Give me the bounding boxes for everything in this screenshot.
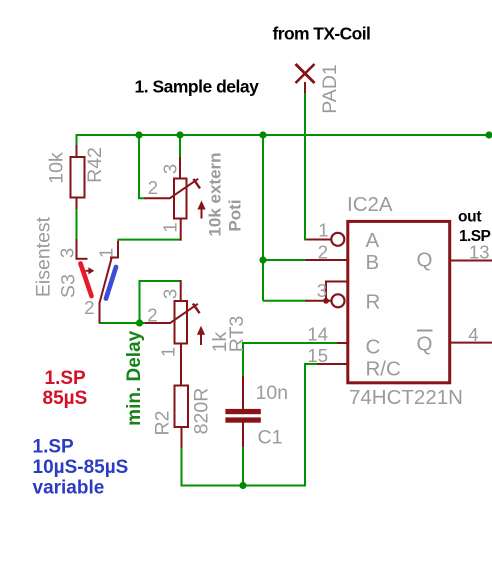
wire: rail to pot pin 3 [179,134,181,158]
wire: bottom net R2 / C1 / IC pin 15 [182,364,319,486]
svg-text:R: R [366,291,381,314]
svg-text:10n: 10n [256,382,289,404]
svg-text:R42: R42 [84,147,106,183]
wire: C1 bottom lead green part [242,445,244,486]
svg-text:C1: C1 [258,427,283,449]
wire: main top rail [77,134,491,136]
svg-text:4: 4 [468,324,478,345]
svg-text:from TX-Coil: from TX-Coil [273,24,371,44]
svg-text:Eisentest: Eisentest [33,216,55,297]
IC pin 4 lead [449,342,492,344]
svg-text:1. Sample delay: 1. Sample delay [135,77,260,97]
svg-text:2: 2 [147,305,157,326]
IC pin 1 lead and bubble [307,233,345,246]
svg-text:74HCT221N: 74HCT221N [349,386,463,409]
switch blue mark [106,267,116,299]
IC pin 13 lead [449,260,492,262]
svg-text:10k extern: 10k extern [206,152,225,236]
svg-text:RT3: RT3 [226,316,248,353]
svg-text:out: out [458,209,481,226]
junction node rail right end [485,131,492,138]
op-amp IC2A (monostable 74HCT221) [348,221,450,382]
wire: to IC pin 3 [263,300,307,302]
svg-text:A: A [366,229,380,252]
svg-text:min. Delay: min. Delay [124,330,145,425]
junction node on rail x263 [259,131,266,138]
svg-text:Q: Q [417,249,433,272]
wire: node to RT3 wiper [140,322,147,324]
wire: rail down to IC pins 2 and 3 [262,135,264,301]
svg-text:1: 1 [318,220,328,241]
resistor R42 [71,145,85,209]
svg-text:1.SP: 1.SP [459,228,490,245]
svg-text:15: 15 [307,345,328,366]
wire: to IC pin 2 [263,259,307,261]
svg-text:C: C [366,336,381,359]
IC pin 3 lead, node and bubble [306,282,348,308]
wire: node to RT3 pin 3 [140,281,182,323]
svg-text:PAD1: PAD1 [319,64,341,114]
IC pin 2 lead [306,259,348,261]
junction node on rail x139 [135,131,142,138]
wire: switch pin 2 to node [100,322,140,324]
wire: rail to R42 top [76,134,78,146]
svg-text:10k: 10k [46,152,68,184]
potentiometer RT3 [145,280,205,386]
svg-text:14: 14 [307,324,328,345]
junction node at IC pin 2 [259,256,266,263]
wire: rail to pot wiper (pin 2) [139,134,146,198]
potentiometer P1 10k extern [145,157,206,241]
svg-text:B: B [366,251,380,274]
IC pin name Q-bar [417,331,433,356]
wire: R42 bottom to switch S3 pin 3 [76,208,78,240]
capacitor C1 [225,376,260,447]
svg-text:2: 2 [84,297,94,318]
IC pin 15 lead [317,363,347,365]
svg-text:R/C: R/C [366,358,402,381]
svg-text:S3: S3 [58,274,80,298]
wire: PAD1 down to IC pin 1 [305,92,308,240]
junction node on rail x180 [176,131,183,138]
svg-text:Poti: Poti [226,199,245,231]
junction node at bottom net [239,482,246,489]
svg-text:2: 2 [148,177,158,198]
resistor R2 [175,386,189,449]
wire: IC pin 14 to C1 top [243,343,338,377]
pad PAD1 [296,64,315,93]
svg-text:3: 3 [160,164,181,174]
svg-text:IC2A: IC2A [347,193,393,216]
IC pin 14 lead [337,342,347,344]
svg-text:1: 1 [158,347,179,357]
svg-text:10µS-85µS: 10µS-85µS [33,457,129,478]
svg-text:3: 3 [160,289,181,299]
wire: pot pin 1 to switch pin 1 [118,239,182,241]
svg-text:1.SP: 1.SP [45,368,87,389]
junction node below switch [136,319,143,326]
svg-text:3: 3 [57,248,78,258]
svg-text:1.SP: 1.SP [33,437,75,458]
svg-text:820R: 820R [191,388,213,435]
svg-text:1: 1 [160,222,181,232]
svg-text:R2: R2 [152,411,174,436]
svg-text:85µS: 85µS [43,388,88,409]
svg-text:1: 1 [96,248,117,258]
svg-text:variable: variable [33,478,105,499]
svg-text:Q: Q [417,333,433,356]
svg-text:3: 3 [317,280,327,301]
switch S3 [76,239,119,324]
switch red mark [81,264,92,297]
svg-text:2: 2 [318,241,328,262]
